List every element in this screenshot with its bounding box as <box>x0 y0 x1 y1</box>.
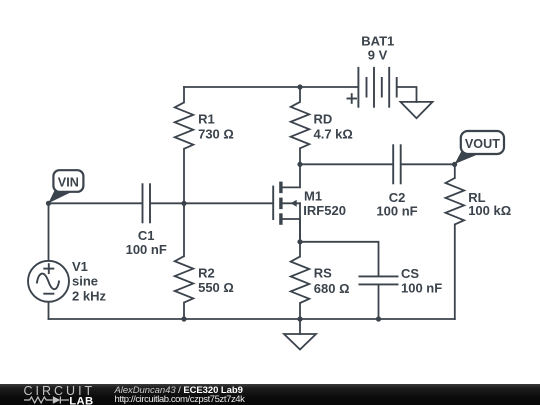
svg-text:CS: CS <box>401 266 419 281</box>
svg-text:730 Ω: 730 Ω <box>198 126 234 141</box>
svg-text:C1: C1 <box>138 228 155 243</box>
svg-text:R2: R2 <box>198 266 215 281</box>
svg-text:100 nF: 100 nF <box>126 242 167 257</box>
svg-text:V1: V1 <box>72 259 88 274</box>
svg-text:VOUT: VOUT <box>465 137 500 151</box>
svg-text:http://circuitlab.com/czpst75z: http://circuitlab.com/czpst75zt7z4k <box>115 394 246 405</box>
svg-text:550 Ω: 550 Ω <box>198 280 234 295</box>
svg-text:LAB: LAB <box>69 395 93 405</box>
svg-text:RS: RS <box>314 265 332 280</box>
svg-text:RD: RD <box>314 112 333 127</box>
svg-text:M1: M1 <box>304 189 322 204</box>
svg-text:R1: R1 <box>198 112 215 127</box>
svg-text:IRF520: IRF520 <box>303 203 346 218</box>
svg-text:BAT1: BAT1 <box>361 33 394 48</box>
svg-text:4.7 kΩ: 4.7 kΩ <box>314 126 353 141</box>
svg-text:2 kHz: 2 kHz <box>72 288 106 303</box>
svg-text:sine: sine <box>72 273 98 288</box>
svg-text:100 nF: 100 nF <box>401 280 442 295</box>
svg-text:680 Ω: 680 Ω <box>314 281 350 296</box>
svg-text:100 kΩ: 100 kΩ <box>468 203 511 218</box>
svg-text:9 V: 9 V <box>368 47 388 62</box>
svg-text:100 nF: 100 nF <box>376 203 417 218</box>
svg-text:VIN: VIN <box>58 175 79 189</box>
